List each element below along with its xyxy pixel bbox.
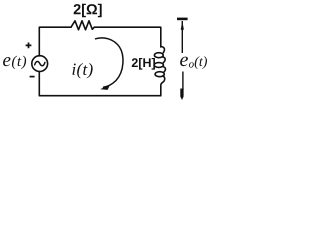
polarity minus (30, 76, 35, 78)
output arrow bottom stem (182, 72, 184, 91)
inductor loop eye 2 (154, 63, 163, 68)
label e(t) (3, 56, 26, 70)
inductor loop eye 1 (154, 53, 163, 58)
inductor L 2[H] coil entry arc (161, 47, 165, 53)
polarity plus (26, 43, 32, 49)
mesh current arrowhead (100, 84, 110, 90)
inductor connector arc 2-3 (163, 67, 166, 73)
output arrow top head (up) (181, 21, 184, 30)
output arrow top bar (177, 18, 188, 21)
source e(t) circle (32, 56, 48, 72)
wire bottom segment (39, 71, 161, 95)
inductor connector arc 1-2 (163, 57, 166, 63)
value label 2[Ω] (74, 4, 102, 18)
label i(t) (72, 63, 92, 78)
output arrow bottom head (down) (180, 89, 183, 101)
mesh current arc i(t) (96, 38, 123, 87)
inductor coil exit arc (161, 76, 165, 96)
label eo(t) (180, 57, 188, 67)
wire top-right segment (94, 27, 161, 47)
value label 2[H] (132, 58, 155, 70)
wire top-left segment (39, 27, 71, 56)
output arrow top stem (181, 21, 183, 53)
inductor loop eye 3 (155, 72, 164, 77)
source sine tilde (35, 61, 45, 65)
resistor R 2[Ω] (71, 21, 94, 30)
